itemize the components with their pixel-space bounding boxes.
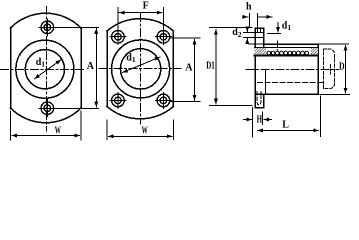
dim D: extension lines: [319, 44, 350, 94]
dashed rounded end (hidden): [323, 49, 334, 89]
dim F top: extension lines: [118, 8, 164, 29]
strip lines: [249, 44, 318, 48]
dim d1 down arrow: [277, 23, 279, 33]
horizontal centerline: [99, 68, 181, 70]
dim h: extension lines up: [250, 14, 258, 28]
ball separator ticks: [271, 52, 305, 55]
dim W line with arrows: [108, 135, 172, 137]
vertical centerline: [46, 7, 48, 132]
bore circle d1: [120, 49, 160, 89]
dim H: extension lines down: [253, 108, 263, 138]
dim D1 line with arrows: [215, 29, 217, 104]
dim H arrows (outside): [244, 119, 252, 121]
d1 leader (double arrow): [35, 60, 62, 79]
flange plate: [255, 28, 264, 108]
dim d1 dot: [276, 49, 278, 51]
bottom bolt crosshair: [39, 100, 56, 117]
oval flange outline: [11, 13, 82, 122]
bolt hole BR: [157, 94, 170, 107]
horizontal centerline: [1, 69, 87, 71]
svg-text:d1: d1: [126, 53, 136, 65]
dim d1 up tick: [277, 41, 279, 47]
svg-text:F: F: [143, 0, 149, 11]
dim A line with arrows: [194, 39, 196, 100]
dim D1: extension lines: [210, 28, 253, 106]
dim A right: extension lines: [54, 28, 99, 109]
svg-text:W: W: [142, 126, 148, 137]
svg-text:H: H: [257, 115, 263, 126]
bolt hole TR: [157, 31, 170, 44]
dim A line with arrows: [95, 29, 97, 108]
svg-text:h: h: [246, 2, 252, 13]
dim D line with arrows: [345, 45, 347, 93]
dim L line with arrows: [258, 129, 319, 131]
top bolt hole: [41, 21, 54, 34]
dim h arrows (outside): [243, 16, 248, 18]
flange outline: [107, 19, 173, 119]
vertical centerline: [140, 14, 142, 125]
svg-text:A: A: [87, 61, 95, 72]
svg-text:A: A: [185, 62, 193, 73]
top bolt crosshair: [39, 19, 56, 36]
svg-text:L: L: [282, 120, 289, 131]
dim W bottom: extension lines: [107, 120, 173, 140]
bore circle d1: [25, 50, 64, 89]
svg-text:D1: D1: [206, 61, 215, 72]
dim F line with arrows: [119, 12, 162, 14]
dim d2 arrows (outside, vertical): [246, 29, 248, 32]
svg-text:W: W: [55, 125, 61, 136]
svg-text:d1: d1: [282, 20, 292, 32]
bolt hole BL: [112, 94, 125, 107]
boss circle: [16, 40, 74, 98]
dim W line with arrows: [12, 135, 80, 137]
boss circle: [112, 40, 170, 98]
hidden bore line (dashed): [257, 82, 323, 84]
bottom bolt hole: [41, 102, 54, 115]
hatch left block: [255, 48, 266, 55]
retainer ring line: [265, 70, 267, 95]
bolt hole TL: [112, 31, 125, 44]
strip bottom thick line: [255, 55, 318, 57]
flange oil-hole internals: [255, 28, 264, 37]
svg-text:D: D: [339, 62, 345, 73]
dim A right: extension lines: [170, 38, 200, 102]
svg-text:d1: d1: [36, 57, 46, 69]
dim W bottom: extension lines: [11, 111, 82, 140]
svg-text:d2: d2: [232, 27, 242, 39]
hatch right block: [311, 48, 318, 55]
centerline: [246, 69, 339, 71]
flange mounting hole (dashed): [257, 92, 261, 105]
balls row: [267, 51, 308, 55]
dim L: right extension line: [320, 96, 322, 137]
dim d1 (oil hole): extension line: [268, 33, 281, 35]
d1 leader (double arrow): [123, 57, 161, 73]
end center tick: [330, 65, 332, 74]
dim d2: extension lines left: [244, 33, 255, 38]
body outline: [255, 44, 318, 94]
